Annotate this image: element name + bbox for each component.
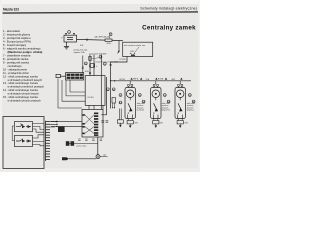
inline connector on wire [86, 39, 88, 41]
wires between upper and lower unit [89, 105, 103, 109]
connector below motor 13 [153, 119, 159, 128]
node label 1 [68, 31, 71, 34]
node label 9 [119, 94, 122, 97]
svg-text:7 - oświetlenie wnętrza: 7 - oświetlenie wnętrza [3, 54, 31, 58]
svg-text:1 - akumulator: 1 - akumulator [3, 29, 20, 33]
comb leads with dots [50, 122, 57, 127]
wires inside big box [12, 124, 44, 146]
wire: unit 6 down to bus junction [103, 57, 127, 115]
caption motor 13 [162, 102, 171, 112]
node label 2 [109, 33, 112, 36]
svg-text:tylnych pr.: tylnych pr. [187, 109, 195, 112]
connector bars under left column [101, 121, 108, 122]
ground under battery [66, 42, 68, 47]
svg-text:B/TDB: B/TDB [158, 79, 164, 81]
svg-text:2 - bezpiecznik główny: 2 - bezpiecznik główny [3, 33, 31, 37]
wire along lower unit right [101, 114, 103, 116]
svg-text:ośw. wnętrza zamkn. otw.: ośw. wnętrza zamkn. otw. [124, 44, 146, 47]
arrow mark [62, 157, 69, 160]
page background [0, 0, 200, 172]
svg-text:S/W: S/W [135, 122, 139, 124]
svg-text:przew. zamka: przew. zamka [77, 146, 87, 148]
svg-text:S/W: S/W [130, 51, 134, 53]
ground terminal circle [96, 155, 100, 159]
node label 10a [138, 94, 141, 97]
connector above motor 12 [128, 81, 133, 88]
connector below motor 14 [177, 119, 183, 128]
svg-text:30 A: 30 A [106, 42, 111, 45]
svg-text:w drzwiach przednich prawych: w drzwiach przednich prawych [8, 85, 45, 89]
control unit lower box [82, 110, 103, 138]
switch 11 leads [120, 109, 122, 120]
relay contact ladder inside lower unit [94, 113, 98, 136]
svg-text:S/W: S/W [185, 122, 189, 124]
svg-text:Schematy instalacji elektryczn: Schematy instalacji elektrycznej [140, 6, 197, 10]
relay K2 sub-box [15, 135, 33, 146]
switch 9 connector [112, 98, 116, 104]
connector below motor 12 [127, 119, 133, 128]
node label 5 [84, 62, 87, 65]
node label 15a [188, 94, 191, 97]
svg-text:LR 301: LR 301 [88, 97, 94, 99]
svg-text:(Mazda bez podgrz. silnika): (Mazda bez podgrz. silnika) [8, 50, 43, 54]
battery 1 [64, 34, 77, 42]
caption motor 14 [187, 102, 196, 112]
svg-text:10 - zabezpieczenie: 10 - zabezpieczenie [3, 67, 27, 71]
svg-text:NRF A: NRF A [133, 78, 139, 81]
door motor 12 [125, 88, 135, 119]
wires: relay 5 to control unit lower [58, 79, 85, 109]
relay 5 dark block [66, 73, 84, 80]
wire from arrow to ground [69, 158, 96, 160]
svg-text:3 - przełącznik zapłonu: 3 - przełącznik zapłonu [3, 36, 31, 40]
svg-text:Centralny zamek: Centralny zamek [142, 25, 196, 32]
wire into relay 5 top [82, 56, 84, 73]
svg-text:4 - Europa (prócz RFN): 4 - Europa (prócz RFN) [3, 40, 31, 44]
node label 12 [119, 101, 122, 104]
svg-text:5 - zespół sterujący: 5 - zespół sterujący [3, 43, 27, 47]
junction dots [56, 121, 57, 122]
svg-text:w drzwiach tylnych lewych: w drzwiach tylnych lewych [8, 92, 40, 96]
fuse 2 [105, 39, 112, 41]
legend list [3, 29, 44, 102]
connector box small [90, 64, 95, 68]
connector above motor 13 [153, 81, 158, 88]
svg-text:14 - silnik centralnego zamka: 14 - silnik centralnego zamka [3, 88, 38, 92]
svg-text:w drzwiach tylnych prawych: w drzwiach tylnych prawych [8, 99, 42, 103]
door motor 13 [151, 88, 161, 119]
control unit upper box [85, 76, 105, 106]
connector marks on verticals [89, 65, 95, 74]
svg-text:w drzwiach przednich lewych: w drzwiach przednich lewych [8, 78, 43, 82]
node label 7 [106, 88, 109, 91]
door motor 14 [175, 88, 185, 119]
node label 6 [103, 62, 106, 65]
dark component [58, 127, 65, 132]
wire: battery to fuse 2 [77, 38, 106, 41]
svg-text:S/W: S/W [160, 122, 164, 124]
wire marker triangles on bus row [130, 78, 182, 80]
wire: fuse 2 to unit 6 [112, 39, 123, 42]
connector below switch 11 [117, 120, 123, 123]
svg-text:NRF: NRF [172, 79, 176, 81]
wires bottom cluster [74, 143, 98, 145]
svg-text:13 - silnik centralnego zamka: 13 - silnik centralnego zamka [3, 81, 38, 85]
switch inside unit [130, 53, 135, 56]
connector bars right of ground [103, 155, 105, 156]
node label 15b [192, 100, 195, 103]
svg-text:tylko RFN (Mazda): tylko RFN (Mazda) [95, 36, 111, 39]
svg-text:zapłonu 15 A: zapłonu 15 A [74, 51, 86, 54]
connector bars on feed wire [110, 64, 112, 65]
connector pair dark [66, 141, 70, 146]
plug of relay 5 [56, 74, 66, 77]
svg-text:15 - silnik centralnego zamka: 15 - silnik centralnego zamka [3, 95, 38, 99]
node label 13a [142, 100, 145, 103]
svg-text:centralnego: centralnego [8, 64, 23, 68]
connector bars below lower unit [78, 139, 102, 140]
bottom-left big box [3, 117, 44, 169]
connector comb [46, 121, 51, 161]
interior light unit box [123, 42, 153, 56]
svg-text:9 - przełącznik zamka: 9 - przełącznik zamka [3, 60, 29, 64]
svg-text:tylnych lew.: tylnych lew. [162, 109, 171, 112]
connector above motor 14 [178, 81, 183, 88]
relay K1 sub-box [15, 122, 33, 132]
svg-text:RT/SW: RT/SW [120, 59, 126, 61]
svg-text:4: 4 [96, 66, 97, 68]
svg-text:B/TDB: B/TDB [120, 79, 126, 81]
svg-text:przekaźnik 30 A S/W: przekaźnik 30 A S/W [89, 52, 107, 55]
svg-text:6 - włącznik zamka centralnego: 6 - włącznik zamka centralnego [3, 47, 41, 51]
drop from bus to motor 12 [129, 80, 131, 82]
terminal pads lower unit [82, 114, 84, 134]
svg-text:12 - silnik centralnego zamka: 12 - silnik centralnego zamka [3, 74, 38, 78]
node label 4 [99, 55, 102, 58]
bus to door motors [111, 80, 191, 82]
fuse 4 [89, 56, 91, 60]
node label 8 [112, 88, 115, 91]
fuse panel vertical wires [90, 55, 101, 110]
svg-text:przednich: przednich [137, 109, 144, 112]
junction dot on bus [114, 80, 115, 81]
caption motor 12 [137, 102, 146, 112]
wire below lower unit [97, 137, 99, 155]
svg-text:Mazda 323: Mazda 323 [3, 8, 19, 12]
svg-text:S/W: S/W [80, 45, 84, 47]
wire drop from bus [118, 41, 120, 51]
node label 14a [163, 94, 166, 97]
header rule [3, 12, 198, 13]
crossover wires inside lower unit [85, 115, 94, 134]
node label 14b [167, 100, 170, 103]
svg-text:8 - przekaźnik zamka: 8 - przekaźnik zamka [3, 57, 29, 61]
junction dot [110, 80, 111, 81]
wires from comb to lower unit [51, 121, 82, 126]
svg-text:11 - przełącznik drzwi: 11 - przełącznik drzwi [3, 71, 29, 75]
